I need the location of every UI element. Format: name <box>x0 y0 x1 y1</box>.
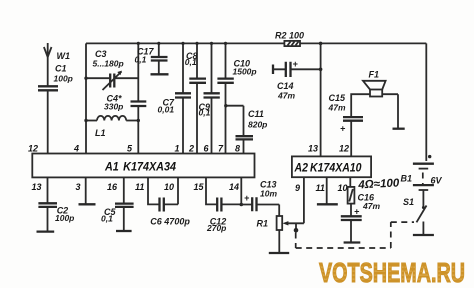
svg-text:C11: C11 <box>248 109 264 119</box>
svg-text:10: 10 <box>164 182 174 192</box>
svg-text:15: 15 <box>194 182 205 192</box>
svg-text:1500p: 1500p <box>233 67 257 77</box>
svg-text:820p: 820p <box>248 120 267 130</box>
svg-text:L1: L1 <box>95 128 106 138</box>
svg-text:12: 12 <box>28 144 38 154</box>
svg-text:R2 100: R2 100 <box>275 31 304 41</box>
svg-text:0,1: 0,1 <box>185 57 197 67</box>
svg-text:S1: S1 <box>403 197 414 207</box>
svg-text:10m: 10m <box>260 189 277 199</box>
svg-text:A2 K174XA10: A2 K174XA10 <box>294 161 362 175</box>
svg-text:270p: 270p <box>206 223 226 233</box>
svg-text:3: 3 <box>76 182 81 192</box>
svg-text:C6 4700p: C6 4700p <box>150 217 190 227</box>
svg-text:C15: C15 <box>329 93 347 103</box>
svg-text:+: + <box>293 59 299 69</box>
svg-text:100p: 100p <box>55 213 74 223</box>
svg-text:C1: C1 <box>55 64 67 74</box>
svg-text:0,01: 0,01 <box>158 104 175 114</box>
svg-text:+: + <box>244 193 250 203</box>
svg-text:C14: C14 <box>277 81 294 91</box>
svg-text:1: 1 <box>175 144 180 154</box>
svg-text:VOTSHEMA.RU: VOTSHEMA.RU <box>319 257 465 288</box>
svg-text:47m: 47m <box>362 201 380 211</box>
svg-text:F1: F1 <box>369 70 380 80</box>
svg-text:4Ω≈100: 4Ω≈100 <box>357 177 400 191</box>
svg-text:330p: 330p <box>104 102 123 112</box>
svg-text:5...180p: 5...180p <box>93 59 124 69</box>
svg-text:0,1: 0,1 <box>135 55 147 65</box>
svg-text:13: 13 <box>308 144 318 154</box>
svg-text:9: 9 <box>295 183 300 193</box>
svg-text:C3: C3 <box>95 49 107 59</box>
svg-text:8: 8 <box>235 144 240 154</box>
svg-text:6: 6 <box>204 144 210 154</box>
svg-text:100p: 100p <box>54 74 73 84</box>
svg-text:16: 16 <box>107 182 118 192</box>
svg-text:11: 11 <box>316 183 325 193</box>
svg-text:W1: W1 <box>57 51 71 61</box>
svg-text:A1 K174XA34: A1 K174XA34 <box>104 160 176 174</box>
svg-text:B1: B1 <box>401 174 413 184</box>
svg-text:12: 12 <box>339 144 349 154</box>
svg-text:7: 7 <box>218 144 224 154</box>
svg-text:5: 5 <box>127 144 133 154</box>
svg-text:6V: 6V <box>431 176 443 186</box>
svg-text:10: 10 <box>338 183 348 193</box>
svg-text:+: + <box>354 207 360 217</box>
svg-text:47m: 47m <box>328 103 346 113</box>
svg-text:47m: 47m <box>277 91 295 101</box>
svg-text:13: 13 <box>32 182 42 192</box>
svg-text:2: 2 <box>188 144 194 154</box>
svg-text:0,1: 0,1 <box>101 214 113 224</box>
svg-text:11: 11 <box>135 182 144 192</box>
svg-text:4: 4 <box>73 144 79 154</box>
svg-text:0,1: 0,1 <box>199 108 211 118</box>
svg-text:14: 14 <box>229 182 239 192</box>
svg-text:+: + <box>340 124 346 134</box>
svg-text:R1: R1 <box>257 219 269 229</box>
